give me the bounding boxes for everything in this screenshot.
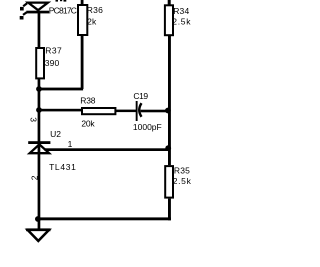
svg-text:3: 3	[29, 117, 39, 122]
svg-text:20k: 20k	[81, 119, 95, 129]
svg-text:R38: R38	[80, 96, 95, 106]
svg-text:PC817C: PC817C	[49, 5, 77, 15]
svg-text:1: 1	[68, 139, 73, 149]
svg-text:C19: C19	[133, 91, 148, 101]
svg-text:2.5k: 2.5k	[172, 16, 191, 26]
svg-text:2: 2	[29, 175, 39, 180]
svg-text:1000pF: 1000pF	[133, 122, 162, 132]
svg-text:390: 390	[45, 58, 60, 68]
svg-text:R34: R34	[173, 6, 189, 16]
svg-text:R37: R37	[45, 45, 62, 55]
svg-text:2k: 2k	[87, 16, 97, 26]
svg-text:2.5k: 2.5k	[173, 176, 192, 186]
svg-text:R35: R35	[174, 165, 190, 175]
svg-text:TL431: TL431	[49, 162, 76, 172]
svg-text:U2: U2	[50, 129, 61, 139]
svg-text:R36: R36	[87, 5, 103, 15]
